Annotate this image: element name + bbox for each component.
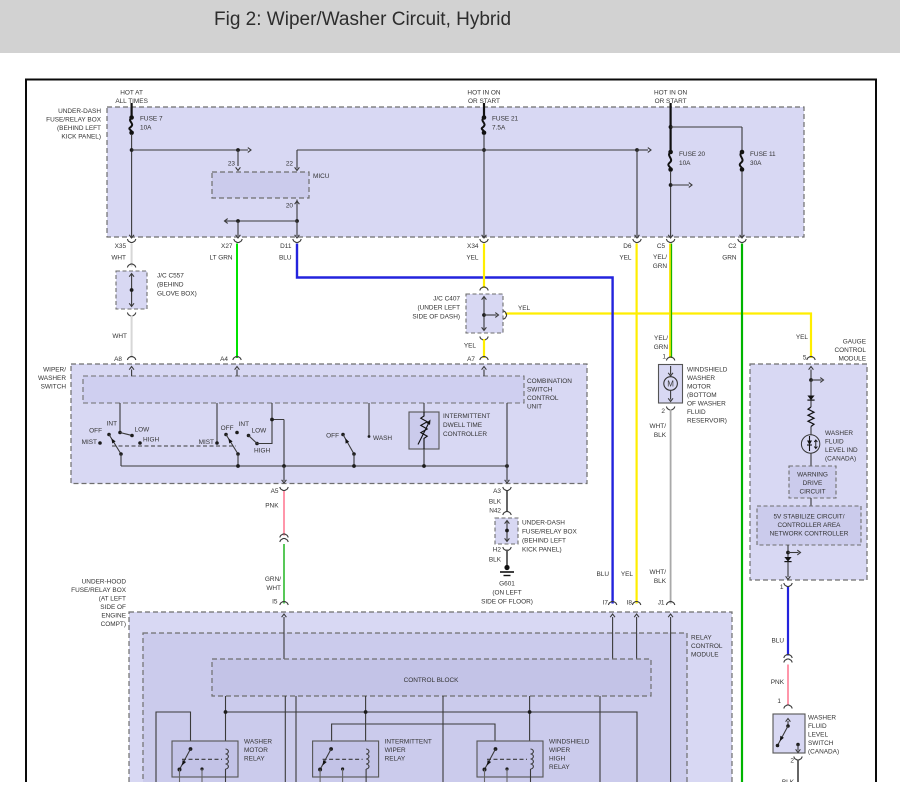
- junction bus/washer: [352, 464, 356, 468]
- wire LED to warning drive circuit: [810, 453, 812, 466]
- svg-text:FUSE 7: FUSE 7: [140, 116, 163, 123]
- svg-text:I5: I5: [272, 599, 278, 606]
- wire H2 arrow end: [637, 149, 648, 151]
- svg-text:BLK: BLK: [489, 557, 502, 564]
- fuse F20: [668, 152, 671, 170]
- svg-text:J/C C557: J/C C557: [157, 273, 184, 280]
- svg-text:MODULE: MODULE: [691, 652, 719, 659]
- wire A5 exit: [283, 466, 285, 481]
- svg-text:I7: I7: [603, 600, 609, 607]
- wire fuse 7 to X35: [131, 134, 133, 237]
- svg-text:LOW: LOW: [135, 427, 151, 434]
- svg-text:WASHER: WASHER: [687, 375, 715, 382]
- svg-text:WIPER: WIPER: [385, 747, 406, 754]
- svg-text:20: 20: [286, 203, 294, 210]
- fuse F11: [740, 152, 743, 170]
- svg-text:CONTROLLER: CONTROLLER: [443, 431, 487, 438]
- svg-text:BLK: BLK: [489, 499, 502, 506]
- wire washer relay coil feed: [225, 696, 227, 748]
- junction connector J/C C407: [480, 287, 488, 291]
- svg-text:X35: X35: [115, 243, 127, 250]
- svg-text:(BEHIND LEFT: (BEHIND LEFT: [522, 538, 566, 545]
- svg-text:CIRCUIT: CIRCUIT: [799, 489, 825, 496]
- switch 2 MIST contact: [215, 441, 219, 445]
- resistor R1: [808, 407, 814, 427]
- washer fluid level switch S1: [773, 714, 805, 753]
- fuse F7: [129, 118, 132, 133]
- svg-text:SWITCH: SWITCH: [527, 387, 553, 394]
- svg-text:HIGH: HIGH: [254, 448, 270, 455]
- wire intermittent relay coil feed: [365, 696, 367, 748]
- wire to diode: [810, 380, 812, 396]
- junction gauge output: [786, 551, 790, 555]
- svg-text:CONTROL: CONTROL: [527, 395, 559, 402]
- svg-text:WIPER: WIPER: [549, 747, 570, 754]
- relay WINDSHIELD WIPER/HIGH/RELAY: [477, 741, 543, 777]
- wire control block output 4: [599, 696, 601, 782]
- wire hot feed to fuse 7: [131, 103, 133, 116]
- svg-text:YEL: YEL: [619, 255, 632, 262]
- svg-text:WINDSHIELD: WINDSHIELD: [549, 739, 590, 746]
- svg-text:MODULE: MODULE: [838, 356, 866, 363]
- wire washer relay contact loop: [156, 712, 191, 782]
- wire break BLU/PNK: [784, 654, 792, 658]
- under-dash fuse/relay box junction N42-H2: [503, 511, 511, 515]
- svg-text:N42: N42: [489, 508, 501, 515]
- junction bus/X27: [236, 219, 240, 223]
- svg-text:G601: G601: [499, 581, 515, 588]
- switch 1 INT-LOW link: [120, 433, 132, 436]
- wire LT GRN X27 to A4: [236, 244, 238, 359]
- svg-text:OF WASHER: OF WASHER: [687, 401, 726, 408]
- pin C5 exit arrow: [668, 235, 673, 238]
- wire stub arrow: [671, 184, 689, 186]
- svg-text:WASHER: WASHER: [825, 430, 853, 437]
- svg-text:A4: A4: [220, 356, 228, 363]
- svg-text:(CANADA): (CANADA): [808, 749, 839, 756]
- switch 2 wiper arm: [226, 435, 238, 455]
- svg-text:HIGH: HIGH: [549, 756, 565, 763]
- wire BLU D11 to I7: [297, 244, 613, 604]
- svg-text:RELAY: RELAY: [691, 635, 712, 642]
- svg-text:INTERMITTENT: INTERMITTENT: [385, 739, 432, 746]
- switch 1 OFF contact: [107, 433, 111, 437]
- svg-text:HOT AT: HOT AT: [120, 90, 143, 97]
- switch 1 LOW contact: [130, 434, 134, 438]
- svg-text:MIST: MIST: [82, 439, 97, 446]
- pin A8 entry arrow: [131, 370, 133, 377]
- combination switch control unit: [83, 376, 524, 403]
- svg-text:X34: X34: [467, 243, 479, 250]
- svg-text:5: 5: [803, 355, 807, 362]
- svg-text:INT: INT: [107, 421, 117, 428]
- wire control block output 2: [295, 696, 297, 782]
- arrow branch right: [811, 379, 822, 381]
- svg-text:I8: I8: [627, 600, 633, 607]
- junction gauge pin5: [809, 378, 813, 382]
- svg-text:J1: J1: [658, 600, 665, 607]
- svg-text:UNIT: UNIT: [527, 404, 542, 411]
- control block: [212, 659, 651, 696]
- svg-text:WASH: WASH: [373, 435, 392, 442]
- wire break PNK/GRN-WHT: [280, 534, 288, 538]
- svg-text:BLU: BLU: [596, 571, 609, 578]
- connector C5: [666, 239, 674, 243]
- windshield washer motor M1: [659, 365, 683, 404]
- wire resistor to LED: [810, 427, 812, 436]
- wire fuse 11 to C2: [741, 171, 743, 237]
- wire YEL/GRN C5 to washer motor pin 1: [669, 244, 671, 359]
- wire YEL C407 to A7: [483, 339, 485, 358]
- connector X27: [234, 239, 242, 243]
- wire YEL D6 to I8: [635, 244, 637, 604]
- svg-text:(BEHIND LEFT: (BEHIND LEFT: [57, 125, 101, 132]
- svg-text:J/C C407: J/C C407: [433, 296, 460, 303]
- intermittent dwell time controller: [409, 412, 439, 449]
- svg-text:MOTOR: MOTOR: [687, 384, 711, 391]
- diode D2: [784, 557, 791, 562]
- wire hot feed to fuse 20: [669, 103, 671, 151]
- svg-text:UNDER-DASH: UNDER-DASH: [58, 108, 101, 115]
- washer switch WASH contact feed: [368, 403, 370, 437]
- MICU module: [212, 172, 309, 198]
- pin I8 entry: [636, 622, 638, 659]
- wire MICU pin 22 feed: [296, 150, 298, 169]
- svg-text:BLU: BLU: [279, 255, 292, 262]
- svg-text:SWITCH: SWITCH: [808, 740, 834, 747]
- svg-text:WINDSHIELD: WINDSHIELD: [687, 367, 728, 374]
- wire WHT X35 to J/C C557: [131, 244, 133, 267]
- wire A5 riser down: [283, 420, 285, 467]
- switch 1 HIGH contact: [138, 441, 142, 445]
- pin I7 entry: [612, 622, 614, 659]
- svg-text:YEL: YEL: [518, 305, 531, 312]
- svg-text:GAUGE: GAUGE: [843, 339, 867, 346]
- junction coil feed 3: [528, 710, 532, 714]
- junction H1 branch 23: [236, 148, 240, 152]
- svg-text:FUSE/RELAY BOX: FUSE/RELAY BOX: [522, 529, 578, 536]
- wire H2 bus to D6 branch: [484, 149, 637, 151]
- junction pin20/D11: [295, 219, 299, 223]
- svg-text:Fig 2: Wiper/Washer Circuit, H: Fig 2: Wiper/Washer Circuit, Hybrid: [214, 9, 511, 30]
- arrow branch right: [788, 552, 799, 554]
- pin I5 entry: [283, 622, 285, 659]
- wire WHT/BLK motor to J1: [670, 410, 672, 604]
- svg-text:RESERVOIR): RESERVOIR): [687, 418, 727, 425]
- pin C2 exit arrow: [740, 235, 745, 238]
- svg-text:A7: A7: [467, 356, 475, 363]
- svg-text:1: 1: [780, 584, 784, 591]
- wire diode to resistor: [810, 401, 812, 408]
- junction fuse20 stub: [669, 183, 673, 187]
- switch 2 LOW-HIGH link: [249, 436, 258, 444]
- pin X34 exit arrow: [482, 235, 487, 238]
- svg-text:CONTROL: CONTROL: [691, 643, 723, 650]
- wire YEL C407 horizontal to gauge pin 5: [505, 314, 811, 359]
- white crop at bottom: [0, 782, 900, 805]
- junction bus/A5: [282, 464, 286, 468]
- svg-text:YEL: YEL: [466, 255, 479, 262]
- svg-text:PNK: PNK: [771, 679, 785, 686]
- junction bus/A3: [505, 464, 509, 468]
- switch 2 INT contact: [235, 431, 239, 435]
- svg-text:OFF: OFF: [221, 425, 234, 432]
- svg-text:ENGINE: ENGINE: [101, 613, 126, 620]
- wire GRN/WHT to I5: [283, 544, 285, 604]
- svg-text:RELAY: RELAY: [549, 764, 570, 771]
- svg-text:A8: A8: [114, 356, 122, 363]
- svg-text:UNDER-HOOD: UNDER-HOOD: [82, 579, 127, 586]
- wire BLK washer fluid switch: [797, 760, 799, 782]
- svg-text:SIDE OF FLOOR): SIDE OF FLOOR): [481, 599, 533, 606]
- switch 1 INT contact: [118, 431, 122, 435]
- svg-text:BLU: BLU: [771, 638, 784, 645]
- junction fuse21/H2: [482, 148, 486, 152]
- junction H2/D6: [635, 148, 639, 152]
- svg-text:H2: H2: [493, 547, 502, 554]
- washer fluid level indicator LED: [801, 435, 819, 453]
- svg-text:COMBINATION: COMBINATION: [527, 378, 572, 385]
- under-dash fuse/relay box: [107, 107, 804, 237]
- fuse F21: [482, 118, 485, 133]
- wire BLU gauge to break: [787, 587, 789, 656]
- junction coil feed 1: [224, 710, 228, 714]
- wire BLK H2 to ground: [506, 550, 508, 567]
- svg-text:YEL: YEL: [464, 343, 477, 350]
- svg-text:WASHER: WASHER: [38, 375, 66, 382]
- junction switch2 output: [270, 418, 274, 422]
- svg-text:WHT: WHT: [112, 333, 127, 340]
- connector X34: [480, 239, 488, 243]
- junction fuse7/H1: [130, 148, 134, 152]
- wire PNK to washer fluid switch: [787, 665, 789, 705]
- svg-text:SIDE OF: SIDE OF: [100, 604, 126, 611]
- svg-text:LEVEL: LEVEL: [808, 732, 828, 739]
- wire control block output 3: [442, 696, 444, 782]
- svg-text:(UNDER LEFT: (UNDER LEFT: [417, 305, 460, 312]
- svg-text:HOT IN ON: HOT IN ON: [654, 90, 687, 97]
- wire intermittent-to-windshield contact link: [332, 724, 495, 749]
- relay WASHER MOTOR/RELAY: [172, 741, 238, 777]
- svg-text:22: 22: [286, 161, 294, 168]
- svg-text:10A: 10A: [140, 125, 152, 132]
- MICU pin 20 wire: [296, 200, 298, 222]
- svg-text:KICK PANEL): KICK PANEL): [61, 134, 101, 141]
- svg-text:2: 2: [661, 408, 665, 415]
- svg-text:WASHER: WASHER: [244, 739, 272, 746]
- svg-text:FUSE 21: FUSE 21: [492, 116, 519, 123]
- wire feed to fuse 11: [671, 126, 742, 128]
- relay feed bus: [226, 712, 638, 782]
- svg-text:C5: C5: [657, 243, 666, 250]
- svg-text:LOW: LOW: [252, 428, 268, 435]
- connector washer motor pin 2: [666, 407, 674, 411]
- svg-text:OFF: OFF: [326, 433, 339, 440]
- wire fuse 21 to X34: [483, 134, 485, 237]
- under-hood fuse/relay box: [129, 612, 732, 790]
- switch 2 OFF contact: [224, 433, 228, 437]
- pin J1 entry wire: [670, 622, 672, 782]
- svg-text:FLUID: FLUID: [808, 723, 827, 730]
- svg-text:WHT: WHT: [111, 255, 126, 262]
- svg-text:HOT IN ON: HOT IN ON: [467, 90, 500, 97]
- svg-text:KICK PANEL): KICK PANEL): [522, 547, 562, 554]
- switch 2 pivot: [236, 452, 240, 456]
- washer switch pivot: [352, 452, 356, 456]
- svg-text:D11: D11: [280, 243, 292, 250]
- svg-text:MOTOR: MOTOR: [244, 747, 268, 754]
- svg-text:M: M: [667, 380, 674, 389]
- svg-text:YEL/: YEL/: [653, 254, 667, 261]
- relay INTERMITTENT WIPER/RELAY: [313, 741, 379, 777]
- svg-text:FUSE 20: FUSE 20: [679, 151, 706, 158]
- wire control block outputs: [284, 696, 286, 782]
- wire PNK A5: [283, 491, 285, 536]
- connector D6: [633, 239, 641, 243]
- svg-text:30A: 30A: [750, 160, 762, 167]
- svg-text:23: 23: [228, 161, 236, 168]
- wire to X27 exit: [237, 221, 239, 236]
- wire WHT C557 to A8: [131, 315, 133, 358]
- connector D11: [293, 239, 301, 243]
- svg-text:HIGH: HIGH: [143, 437, 159, 444]
- svg-text:C2: C2: [728, 243, 737, 250]
- svg-text:UNDER-DASH: UNDER-DASH: [522, 520, 565, 527]
- svg-text:1: 1: [662, 354, 666, 361]
- warning drive circuit: [789, 466, 836, 498]
- svg-text:YEL: YEL: [621, 571, 634, 578]
- svg-text:(BOTTOM: (BOTTOM: [687, 392, 717, 399]
- pin A4 entry arrow: [236, 370, 238, 377]
- wire fuse 20 to C5: [670, 171, 672, 237]
- switch common bus: [121, 465, 507, 467]
- svg-text:X27: X27: [221, 243, 233, 250]
- svg-text:SWITCH: SWITCH: [41, 384, 67, 391]
- 5V stabilize circuit / CAN controller: [757, 506, 861, 545]
- svg-text:(AT LEFT: (AT LEFT: [99, 596, 126, 603]
- svg-text:2: 2: [790, 758, 794, 765]
- washer switch OFF contact: [341, 433, 345, 437]
- pin 5 entry arrow: [810, 370, 812, 381]
- wire to pin 1 exit: [787, 562, 789, 577]
- svg-text:MICU: MICU: [313, 173, 330, 180]
- junction connector J/C C557: [127, 264, 135, 268]
- svg-text:(BEHIND: (BEHIND: [157, 282, 184, 289]
- switch 1 pivot: [119, 452, 123, 456]
- wire hot feed to fuse 21: [483, 103, 485, 116]
- junction fuse20/fuse11 feed: [669, 125, 673, 129]
- svg-text:CONTROL BLOCK: CONTROL BLOCK: [404, 677, 460, 684]
- wire D6 branch down: [636, 150, 638, 236]
- svg-text:1: 1: [777, 698, 781, 705]
- svg-text:WHT/: WHT/: [650, 569, 667, 576]
- wiper switch 1 feed from control unit: [119, 403, 121, 433]
- wire YEL X34 to J/C C407: [483, 244, 485, 289]
- svg-text:INTERMITTENT: INTERMITTENT: [443, 413, 490, 420]
- svg-text:GRN: GRN: [654, 344, 669, 351]
- svg-text:GRN/: GRN/: [265, 576, 281, 583]
- wire BLK A3 to N42: [506, 491, 508, 512]
- wire A3 exit: [506, 466, 508, 481]
- title bar: [0, 0, 900, 53]
- svg-text:CONTROLLER AREA: CONTROLLER AREA: [778, 522, 842, 529]
- svg-text:DWELL TIME: DWELL TIME: [443, 422, 483, 429]
- svg-text:D6: D6: [623, 243, 632, 250]
- svg-text:LT GRN: LT GRN: [209, 255, 232, 262]
- svg-text:FUSE 11: FUSE 11: [750, 151, 776, 158]
- wire warning to 5V stabilize: [810, 498, 812, 506]
- switch 1 wiper arm: [109, 435, 121, 455]
- svg-text:FLUID: FLUID: [825, 439, 844, 446]
- connector X35: [127, 239, 135, 243]
- svg-text:7.5A: 7.5A: [492, 125, 506, 132]
- switch 1 MIST contact: [98, 441, 102, 445]
- svg-text:CONTROL: CONTROL: [835, 347, 867, 354]
- svg-text:GRN: GRN: [653, 263, 668, 270]
- svg-text:A5: A5: [271, 488, 279, 495]
- svg-text:(ON LEFT: (ON LEFT: [492, 590, 521, 597]
- wire pin20 bus to X27: [238, 220, 297, 222]
- svg-text:10A: 10A: [679, 160, 691, 167]
- svg-text:INT: INT: [239, 421, 249, 428]
- wire branch to MICU pin 23: [237, 150, 239, 166]
- svg-text:RELAY: RELAY: [385, 756, 406, 763]
- svg-text:WASHER: WASHER: [808, 715, 836, 722]
- wire GRN C2 down right side: [741, 244, 743, 783]
- washer switch WASH contact: [368, 435, 371, 438]
- pin A7 entry arrow: [483, 370, 485, 377]
- svg-text:MIST: MIST: [199, 439, 214, 446]
- svg-text:COMPT): COMPT): [101, 621, 126, 628]
- junction bus/switch2: [236, 464, 240, 468]
- svg-text:GLOVE BOX): GLOVE BOX): [157, 291, 197, 298]
- wiper/washer switch: [71, 364, 587, 484]
- gauge control module: [750, 364, 867, 580]
- junction bus/dwell: [422, 464, 426, 468]
- svg-text:RELAY: RELAY: [244, 756, 265, 763]
- wire 5V box output: [787, 545, 789, 557]
- wire HIGH to A5 riser: [257, 420, 284, 444]
- svg-text:YEL: YEL: [796, 334, 809, 341]
- wire H1 bus to MICU pin 23: [132, 149, 248, 151]
- svg-text:PNK: PNK: [265, 503, 279, 510]
- svg-text:WARNING: WARNING: [797, 472, 828, 479]
- svg-text:YEL/: YEL/: [654, 335, 668, 342]
- svg-text:5V STABILIZE CIRCUIT/: 5V STABILIZE CIRCUIT/: [773, 514, 844, 521]
- svg-text:GRN: GRN: [722, 255, 737, 262]
- svg-text:LEVEL IND: LEVEL IND: [825, 447, 858, 454]
- washer switch arm: [343, 435, 354, 455]
- svg-text:BLK: BLK: [654, 432, 667, 439]
- svg-text:(CANADA): (CANADA): [825, 456, 856, 463]
- switch 2 HIGH contact: [255, 442, 259, 446]
- svg-text:OFF: OFF: [89, 428, 102, 435]
- wiper switch 2 feed from control unit: [216, 403, 218, 443]
- svg-text:NETWORK CONTROLLER: NETWORK CONTROLLER: [770, 531, 849, 538]
- junction coil feed 2: [364, 710, 368, 714]
- svg-text:FLUID: FLUID: [687, 409, 706, 416]
- svg-text:FUSE/RELAY BOX: FUSE/RELAY BOX: [46, 117, 102, 124]
- svg-text:DRIVE: DRIVE: [803, 480, 823, 487]
- ground G601: [504, 565, 509, 570]
- svg-text:A3: A3: [493, 488, 501, 495]
- wire control unit to junction: [271, 403, 273, 420]
- wire control unit to A3: [506, 403, 508, 466]
- connector C2: [738, 239, 746, 243]
- svg-text:WHT: WHT: [266, 585, 281, 592]
- switch 2 LOW contact: [247, 434, 251, 438]
- svg-text:SIDE OF DASH): SIDE OF DASH): [412, 314, 460, 321]
